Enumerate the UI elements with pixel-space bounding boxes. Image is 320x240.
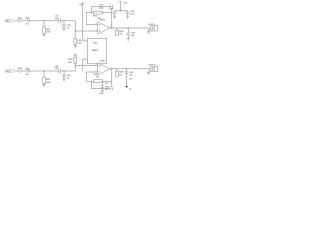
ground (C105) xyxy=(127,39,130,41)
op-amp U100 power unit xyxy=(87,38,106,64)
pin 8 V+ xyxy=(83,39,88,41)
svg-text:5: 5 xyxy=(96,64,97,66)
wire feedback left vertical (bottom) xyxy=(85,72,87,81)
wire R100 to C100 xyxy=(22,20,28,22)
op-amp U100B xyxy=(98,60,110,75)
svg-text:AIN_L: AIN_L xyxy=(6,20,12,23)
junction node K xyxy=(111,68,112,69)
wire input to R200 xyxy=(15,70,18,72)
wire feedback split left xyxy=(91,7,93,13)
ground (R201) xyxy=(43,85,46,87)
svg-text:100: 100 xyxy=(119,74,122,76)
ground (C102) xyxy=(63,29,66,31)
resistor R203 xyxy=(68,57,77,65)
svg-text:-15V: -15V xyxy=(129,78,133,80)
wire inverting input line (bottom) xyxy=(86,71,98,73)
svg-text:10p: 10p xyxy=(129,75,133,77)
wire C101 to op-amp corner xyxy=(60,20,75,22)
junction node H xyxy=(43,70,44,71)
ground (C202) xyxy=(63,79,66,81)
wire junction H down to R201 xyxy=(43,71,45,77)
wire to connector J101 pin1 xyxy=(146,27,151,29)
wire C204 to ground xyxy=(102,88,104,91)
wire junction C down to C102 xyxy=(63,21,65,25)
wire feedback left vertical xyxy=(85,13,87,25)
wire junction F down to C105 xyxy=(127,28,129,33)
wire op-amp output xyxy=(110,27,147,29)
svg-text:10u: 10u xyxy=(26,74,29,76)
capacitor C203 (feedback) xyxy=(92,87,113,95)
ground (J201) xyxy=(147,73,150,75)
junction node I xyxy=(63,70,64,71)
wire junction I down to C202 xyxy=(63,71,65,75)
svg-text:AOUT_L: AOUT_L xyxy=(149,23,157,26)
svg-text:10u: 10u xyxy=(67,27,70,29)
capacitor C201 (series on line) xyxy=(55,66,61,73)
junction node A xyxy=(43,20,44,21)
svg-text:100n: 100n xyxy=(55,68,59,70)
svg-text:100K: 100K xyxy=(46,82,51,84)
resistor R104 (feedback) xyxy=(93,11,112,20)
ground (C204) xyxy=(101,90,104,92)
op-amp U100A xyxy=(98,19,110,35)
junction node F xyxy=(128,27,129,28)
svg-text:+15V: +15V xyxy=(123,2,128,4)
capacitor C105 xyxy=(126,33,135,37)
capacitor C104 xyxy=(109,7,117,13)
svg-text:6: 6 xyxy=(96,71,97,73)
svg-text:470p: 470p xyxy=(99,7,104,10)
svg-text:100n: 100n xyxy=(55,18,59,20)
wire op-amp output (bottom) xyxy=(110,68,147,70)
junction node E xyxy=(111,27,112,28)
wire +15V down to rail xyxy=(119,2,121,11)
svg-text:R100: R100 xyxy=(18,18,22,20)
wire corner to op-amp + input (bottom) xyxy=(75,66,98,71)
ground (R101) xyxy=(43,34,46,36)
wire corner to op-amp + input xyxy=(75,21,98,31)
wire R101 to ground xyxy=(43,33,45,34)
svg-text:100K: 100K xyxy=(46,32,51,34)
wire C102 to ground xyxy=(63,27,65,29)
svg-text:100n: 100n xyxy=(130,13,134,15)
svg-text:10u: 10u xyxy=(26,24,29,26)
wire feedback up to output (bottom) xyxy=(111,69,113,87)
svg-text:AOUT_R: AOUT_R xyxy=(149,64,157,67)
resistor R105 (hanging below output line) xyxy=(116,28,124,36)
wire decoupling rail xyxy=(115,10,128,12)
ground (C104) xyxy=(113,16,116,18)
power flag VCC (bus) xyxy=(79,3,84,7)
pin 4 V- xyxy=(83,57,88,60)
svg-text:C104: C104 xyxy=(109,7,113,10)
svg-text:U100B: U100B xyxy=(99,60,105,62)
junction node J xyxy=(75,65,76,66)
svg-text:100K: 100K xyxy=(68,62,73,64)
wire R203 to ground xyxy=(74,55,76,57)
svg-text:C100: C100 xyxy=(25,18,29,20)
svg-text:R203: R203 xyxy=(68,59,72,61)
resistor R201 xyxy=(43,77,51,84)
resistor R204 (feedback) xyxy=(94,73,112,83)
wire C205 down to flag xyxy=(126,74,128,86)
wire C106 to ground xyxy=(127,14,129,16)
wire R103 to ground xyxy=(74,44,76,46)
svg-text:NE5532: NE5532 xyxy=(92,50,98,52)
resistor R200 xyxy=(18,68,22,72)
capacitor C100 (polarized) xyxy=(25,18,29,26)
wire C202 to ground xyxy=(63,77,65,79)
power flag -15V (bottom right) xyxy=(125,78,133,90)
wire feedback split left (bottom) xyxy=(91,81,93,88)
svg-text:-15V: -15V xyxy=(129,89,132,91)
capacitor C103 (feedback) xyxy=(92,4,113,9)
ground (C106) xyxy=(126,16,129,18)
svg-text:R101: R101 xyxy=(46,29,50,31)
wire input to R100 xyxy=(15,20,18,22)
svg-text:U100: U100 xyxy=(93,43,97,45)
svg-text:R104: R104 xyxy=(93,15,97,18)
svg-text:R201: R201 xyxy=(46,79,50,81)
ground (J101) xyxy=(147,32,150,34)
wire feedback rail left (bottom) xyxy=(86,80,93,82)
svg-text:100: 100 xyxy=(119,34,122,36)
ground (R103) xyxy=(74,46,77,48)
wire VCC bus vertical xyxy=(82,3,84,41)
wire C104 to ground xyxy=(114,14,116,16)
wire R200 to C200 xyxy=(22,70,28,72)
capacitor C202 (polarized, to ground) xyxy=(61,74,71,80)
svg-text:10u: 10u xyxy=(67,78,70,80)
junction node C xyxy=(63,20,64,21)
wire C201 to op-amp corner xyxy=(60,70,75,72)
wire R201 to ground xyxy=(43,83,45,84)
svg-text:470p: 470p xyxy=(99,92,104,95)
resistor R103 xyxy=(74,38,82,44)
junction node D xyxy=(75,30,76,31)
svg-text:10p: 10p xyxy=(131,35,135,37)
wire junction A down to R101 xyxy=(43,21,45,27)
junction node L xyxy=(126,68,127,69)
svg-text:100K: 100K xyxy=(77,42,82,44)
capacitor C204 (to ground) xyxy=(99,81,109,91)
wire junction D down to R103 xyxy=(74,31,76,38)
wire C100 to C101 xyxy=(29,20,58,22)
wire C200 to C201 xyxy=(29,70,58,72)
svg-text:10u: 10u xyxy=(105,89,108,91)
svg-text:3: 3 xyxy=(96,30,97,32)
junction node G xyxy=(120,10,121,11)
wire junction L down to C205 xyxy=(126,69,128,72)
wire inverting input line xyxy=(86,24,98,26)
svg-text:C200: C200 xyxy=(25,68,29,70)
wire C105 to ground xyxy=(127,35,129,39)
resistor R101 xyxy=(43,27,51,34)
capacitor C200 (polarized) xyxy=(25,68,29,76)
ground (R203, pointing up) xyxy=(74,53,77,55)
capacitor C102 (polarized, to ground) xyxy=(61,24,71,30)
resistor R205 (hanging below output line) xyxy=(116,69,124,77)
wire connector pin2 to ground xyxy=(149,70,151,72)
svg-text:C103: C103 xyxy=(99,4,103,6)
svg-text:-15V: -15V xyxy=(105,83,109,85)
resistor R100 xyxy=(18,18,22,22)
capacitor C101 (series on line) xyxy=(55,16,61,23)
connector J101 xyxy=(149,23,158,31)
power flag +15V xyxy=(118,2,128,5)
wire feedback rail left xyxy=(86,12,93,14)
svg-text:R200: R200 xyxy=(18,68,22,70)
capacitor C205 xyxy=(125,72,133,77)
svg-text:2: 2 xyxy=(96,23,97,25)
global label AIN_R xyxy=(4,70,14,73)
svg-text:AIN_R: AIN_R xyxy=(6,70,12,73)
svg-text:47K: 47K xyxy=(96,75,100,78)
wire V- bus vertical xyxy=(82,60,84,71)
svg-text:R205: R205 xyxy=(119,72,123,74)
global label AIN_L xyxy=(4,20,14,23)
wire to connector J201 pin1 xyxy=(146,68,151,70)
wire feedback down to output xyxy=(111,8,113,28)
wire connector pin2 to ground xyxy=(149,30,151,32)
capacitor C106 xyxy=(126,11,135,16)
connector J201 xyxy=(149,64,158,72)
svg-text:R105: R105 xyxy=(119,31,123,33)
